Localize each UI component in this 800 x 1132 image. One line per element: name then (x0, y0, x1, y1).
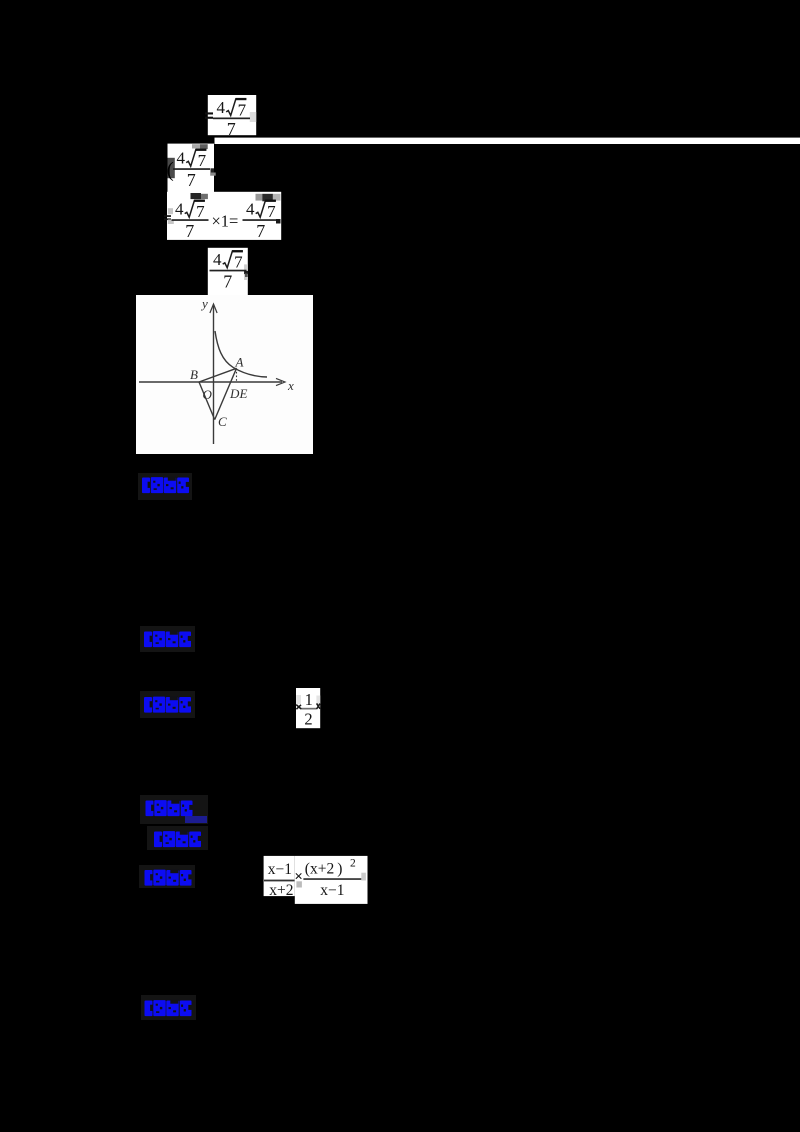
full width white strip (215, 138, 800, 144)
y-axis arrowhead (210, 304, 217, 313)
svg-text:(: ( (167, 158, 174, 182)
big fraction right white box (295, 856, 368, 904)
svg-text:D: D (229, 386, 240, 401)
fraction one-half white box (296, 688, 320, 728)
formula 4 radical fraction (210, 250, 247, 291)
svg-text:×1=: ×1= (212, 212, 239, 231)
svg-text:(x+2 ): (x+2 ) (305, 861, 343, 878)
blue label 6 (145, 869, 192, 886)
formula 1 radical fraction (213, 98, 250, 139)
formula 1 right gray column (250, 112, 256, 122)
formula 4 comma (244, 271, 248, 274)
formula 3 top artifacts (191, 193, 202, 199)
svg-text:1: 1 (305, 690, 313, 709)
formula image 1 white box (208, 95, 256, 135)
one-half edge artifacts (296, 695, 301, 704)
x-axis arrowhead (276, 378, 285, 385)
label 2 halo (140, 626, 195, 652)
big fraction right bar (303, 878, 361, 880)
blue label 1 (142, 477, 189, 494)
big fraction left white box (264, 856, 295, 896)
blue label 4 (146, 800, 193, 817)
svg-text:2: 2 (304, 709, 312, 728)
svg-text:O: O (203, 387, 213, 402)
svg-text:x: x (287, 378, 294, 393)
segment A-C (215, 368, 237, 419)
svg-text:x+2: x+2 (269, 882, 293, 899)
dark navy fragment under label 4 (185, 816, 207, 823)
formula image 4 white box (208, 248, 248, 295)
label 5 halo (147, 826, 208, 850)
formula 1 equals sign (205, 112, 213, 118)
graph labels (190, 296, 294, 429)
label 4 halo (140, 795, 208, 824)
y-axis (213, 306, 215, 444)
svg-text:C: C (218, 414, 227, 429)
svg-text:2: 2 (350, 858, 356, 870)
formula 3 second radical fraction (243, 200, 280, 241)
formula 2 open paren blob (168, 158, 175, 178)
label 6 halo (139, 865, 195, 888)
label 1 halo (138, 473, 192, 500)
formula 3 period (276, 219, 281, 224)
hyperbola curve (215, 331, 267, 377)
formula 3 first radical fraction (172, 200, 209, 241)
svg-text:x−1: x−1 (268, 861, 292, 878)
formula 4 right gray column (244, 264, 247, 280)
svg-text:B: B (190, 367, 198, 382)
segment B-C (199, 382, 215, 420)
label 7 halo (141, 995, 196, 1020)
one-half bar (301, 708, 317, 710)
big fraction left bar (264, 880, 295, 882)
dotted A-D (236, 368, 238, 382)
x-axis (139, 381, 282, 383)
formula 2 top artifacts (192, 144, 200, 148)
svg-text:y: y (200, 296, 208, 311)
svg-text:x−1: x−1 (320, 882, 344, 899)
one-half side dark marks (296, 705, 301, 710)
svg-text:A: A (235, 355, 244, 370)
formula 2 comma (211, 168, 215, 172)
formula 2 radical fraction (173, 149, 210, 190)
formula 3 equals at left edge (164, 215, 171, 220)
formula image 2 white box (168, 144, 215, 192)
blue label 7 (145, 1000, 192, 1017)
big fraction artifacts (296, 881, 302, 887)
segment B-A (199, 368, 237, 382)
label 3 halo (140, 691, 195, 718)
svg-text:E: E (239, 386, 248, 401)
graph image white box (136, 295, 313, 454)
blue label 3 (144, 696, 191, 713)
blue label 5 (154, 831, 201, 848)
blue label 2 (144, 631, 191, 648)
formula image 3 white box (167, 192, 281, 240)
